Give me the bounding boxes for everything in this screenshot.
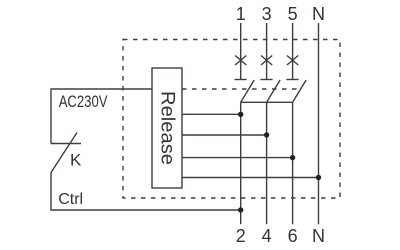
svg-text:N: N (312, 4, 325, 24)
svg-text:2: 2 (236, 226, 246, 246)
svg-text:N: N (312, 226, 325, 246)
svg-text:K: K (70, 151, 82, 170)
svg-text:6: 6 (288, 226, 298, 246)
svg-text:3: 3 (262, 4, 272, 24)
svg-text:1: 1 (236, 4, 246, 24)
svg-text:AC230V: AC230V (59, 92, 108, 111)
svg-text:Ctrl: Ctrl (58, 191, 83, 208)
svg-text:Release: Release (157, 91, 178, 165)
svg-text:5: 5 (288, 4, 298, 24)
svg-text:4: 4 (262, 226, 272, 246)
